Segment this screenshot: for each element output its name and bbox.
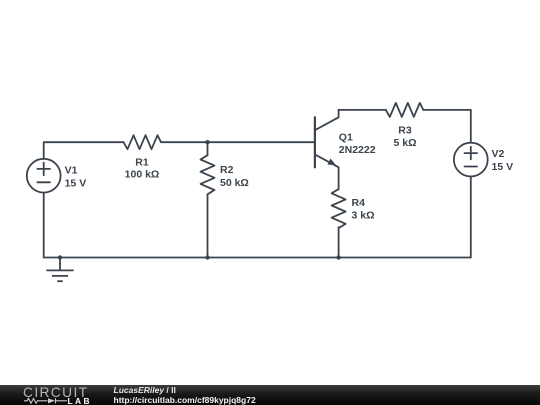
resistor R2 xyxy=(201,155,215,194)
wire bottom rail xyxy=(44,257,471,259)
footer url text xyxy=(114,396,256,405)
Q1 base bar xyxy=(314,117,316,167)
V1 plus sign xyxy=(37,163,50,176)
svg-text:100 kΩ: 100 kΩ xyxy=(125,169,160,181)
wire R2 bottom lead xyxy=(207,194,209,257)
resistor R3 xyxy=(386,103,424,117)
node junction R2 bottom xyxy=(205,255,209,259)
footer author text xyxy=(114,386,176,395)
wire R1 to Q1 base xyxy=(161,141,315,143)
svg-text:V1: V1 xyxy=(65,164,78,176)
svg-text:15 V: 15 V xyxy=(65,177,87,189)
svg-text:Q1: Q1 xyxy=(339,131,353,143)
svg-text:50 kΩ: 50 kΩ xyxy=(220,177,249,189)
svg-text:R2: R2 xyxy=(220,164,234,176)
wire V2 bottom xyxy=(470,177,472,258)
CircuitLab logo xyxy=(0,385,100,405)
voltage source V2 xyxy=(454,143,488,177)
V2 plus sign xyxy=(465,147,478,160)
V1 minus sign xyxy=(37,181,50,183)
footer bar xyxy=(0,385,540,405)
Q1 emitter arrow xyxy=(327,159,336,166)
transistor Q1 xyxy=(315,110,339,190)
wire collector rail to R3 xyxy=(339,109,386,111)
svg-text:5 kΩ: 5 kΩ xyxy=(393,137,416,149)
svg-text:R1: R1 xyxy=(135,156,149,168)
svg-text:V2: V2 xyxy=(492,148,505,160)
V2 minus sign xyxy=(465,166,478,168)
svg-text:3 kΩ: 3 kΩ xyxy=(352,210,375,222)
svg-text:R3: R3 xyxy=(398,124,412,136)
wire R4 bottom lead xyxy=(338,227,340,257)
svg-text:15 V: 15 V xyxy=(492,161,514,173)
node junction R2 top xyxy=(205,140,209,144)
node junction R4 bottom xyxy=(336,255,340,259)
wire R2 top lead xyxy=(207,142,209,155)
Q1 collector xyxy=(315,110,339,130)
node ground junction xyxy=(58,255,62,259)
svg-text:R4: R4 xyxy=(352,197,366,209)
resistor R1 xyxy=(124,135,162,149)
svg-text:LAB: LAB xyxy=(68,396,92,405)
resistor R4 xyxy=(332,189,346,228)
wire R3 to V2 corner xyxy=(423,110,471,142)
ground xyxy=(46,258,73,282)
wire top-left rail V1 to R1 xyxy=(44,142,124,159)
voltage source V1 xyxy=(27,159,61,193)
svg-text:2N2222: 2N2222 xyxy=(339,144,376,156)
Q1 emitter xyxy=(315,154,339,189)
wire V1 bottom xyxy=(43,193,45,258)
